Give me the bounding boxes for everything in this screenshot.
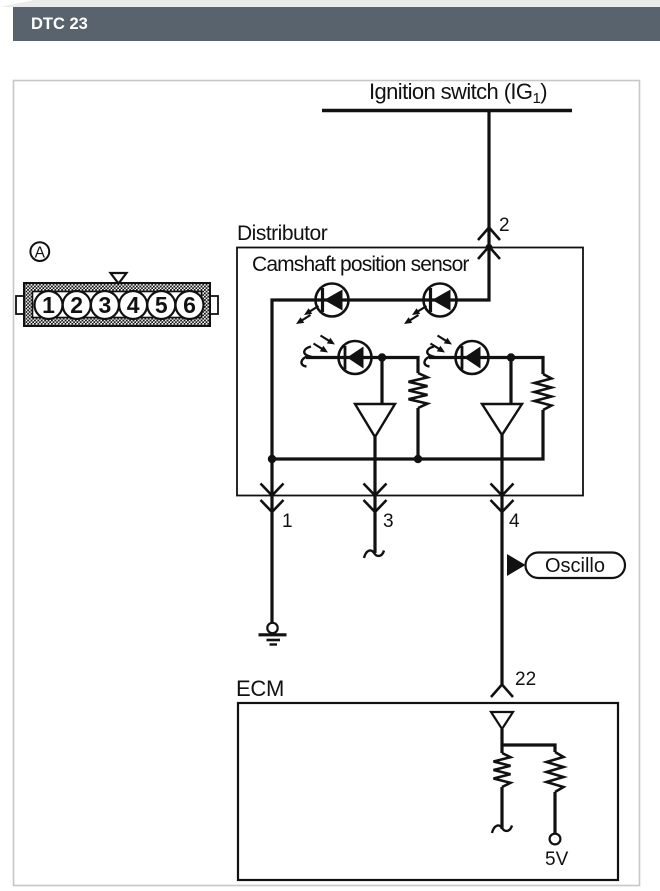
svg-text:Ignition switch (IG1): Ignition switch (IG1) — [369, 79, 547, 107]
svg-text:A: A — [35, 245, 46, 262]
svg-text:5: 5 — [155, 292, 168, 318]
svg-text:1: 1 — [42, 292, 55, 318]
svg-text:22: 22 — [515, 669, 536, 690]
svg-text:1: 1 — [282, 511, 293, 532]
svg-text:Distributor: Distributor — [237, 222, 328, 245]
svg-text:6: 6 — [183, 292, 196, 318]
svg-text:DTC 23: DTC 23 — [31, 15, 88, 33]
svg-text:ECM: ECM — [236, 676, 284, 701]
svg-text:3: 3 — [383, 511, 394, 532]
svg-text:2: 2 — [499, 215, 510, 236]
svg-text:4: 4 — [509, 511, 520, 532]
svg-text:2: 2 — [70, 292, 83, 318]
svg-text:4: 4 — [127, 292, 140, 318]
svg-text:Camshaft position sensor: Camshaft position sensor — [252, 253, 469, 276]
svg-text:5V: 5V — [545, 849, 569, 870]
svg-text:3: 3 — [99, 292, 112, 318]
svg-text:Oscillo: Oscillo — [545, 555, 605, 577]
